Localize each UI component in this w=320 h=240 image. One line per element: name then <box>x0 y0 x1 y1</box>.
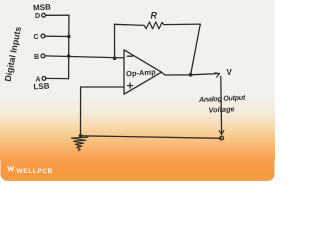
arrowhead at V node <box>215 73 220 77</box>
node junction feedback-output <box>189 73 193 77</box>
footer band <box>1 152 275 182</box>
wire op-amp output <box>162 72 220 75</box>
wire output vertical down <box>220 77 223 133</box>
wire down to ground rail <box>80 87 82 136</box>
wire ground rail <box>81 136 222 139</box>
ground symbol <box>71 137 88 150</box>
wire feedback left vertical <box>114 24 116 58</box>
svg-text:MSB: MSB <box>33 2 52 12</box>
node junction feedback-inverting <box>113 56 117 60</box>
wire A horizontal <box>46 77 69 79</box>
op-amp non-inverting pin mark <box>128 83 133 88</box>
terminal B <box>41 54 45 58</box>
svg-text:C: C <box>34 34 39 41</box>
wire D horizontal <box>46 14 70 16</box>
svg-text:LSB: LSB <box>33 81 50 91</box>
terminal C <box>41 34 45 38</box>
logo WELLPCB <box>7 166 53 175</box>
wire feedback right vertical <box>191 24 201 75</box>
terminal D <box>42 13 46 17</box>
terminal output bottom <box>220 136 224 140</box>
svg-text:WELLPCB: WELLPCB <box>17 168 54 175</box>
svg-text:Voltage: Voltage <box>208 104 235 114</box>
node junction plus-ground <box>79 134 83 138</box>
arrowhead down <box>219 130 224 134</box>
wire C horizontal <box>45 35 69 37</box>
resistor R zigzag <box>144 22 164 29</box>
wire feedback top left segment <box>115 24 145 25</box>
node junction B-bus <box>67 54 71 58</box>
svg-text:V: V <box>227 68 233 77</box>
node junction C-bus <box>67 35 71 39</box>
svg-text:D: D <box>35 13 40 20</box>
wire D vertical drop <box>68 15 70 36</box>
svg-text:R: R <box>151 11 158 21</box>
op-amp U1 triangle <box>124 50 162 94</box>
wire feedback top right segment <box>164 23 201 26</box>
svg-text:B: B <box>34 54 39 61</box>
wire B to op-amp inverting input <box>45 56 124 58</box>
terminal A <box>42 77 46 81</box>
wire bus vertical <box>68 37 70 79</box>
op-amp inverting pin mark <box>128 55 133 57</box>
wire non-inverting input <box>81 86 124 88</box>
